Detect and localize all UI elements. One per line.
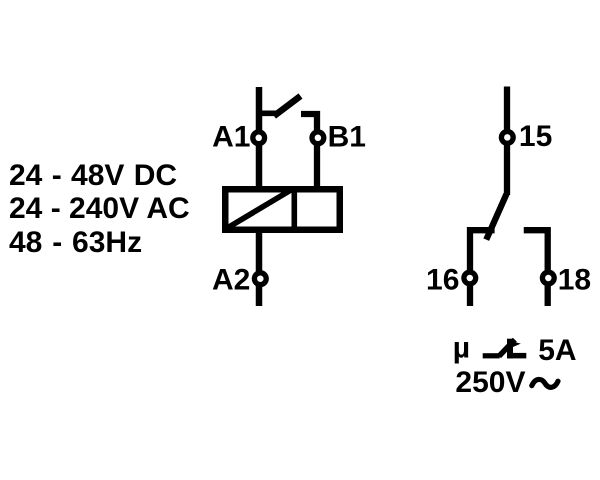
svg-text:24 - 48V DC: 24 - 48V DC bbox=[9, 159, 177, 192]
svg-text:18: 18 bbox=[558, 263, 591, 296]
svg-text:A2: A2 bbox=[212, 263, 250, 296]
svg-text:A1: A1 bbox=[212, 120, 250, 153]
svg-text:48 - 63Hz: 48 - 63Hz bbox=[9, 226, 142, 259]
svg-text:250V: 250V bbox=[455, 366, 525, 399]
svg-text:24 - 240V AC: 24 - 240V AC bbox=[9, 192, 190, 225]
svg-text:16: 16 bbox=[426, 263, 459, 296]
svg-text:B1: B1 bbox=[328, 120, 366, 153]
svg-text:15: 15 bbox=[519, 120, 552, 153]
svg-text:µ: µ bbox=[453, 332, 470, 365]
svg-text:5A: 5A bbox=[538, 334, 576, 367]
